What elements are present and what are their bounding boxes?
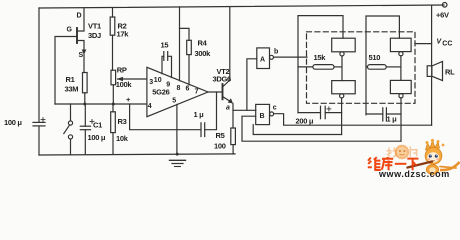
- resistor R4: [180, 28, 190, 40]
- gate stage1 bottom box: [332, 81, 356, 94]
- gate stage1 top box: [332, 38, 356, 52]
- wire gate of VT1: [55, 37, 77, 105]
- wire B lower input feedback: [242, 116, 401, 141]
- faint stamp glyph zhao: [387, 148, 398, 158]
- node +6V terminal: [442, 3, 447, 8]
- watermark: [368, 139, 460, 179]
- resistor 15k: [298, 66, 313, 68]
- svg-text:3DG6: 3DG6: [213, 75, 232, 84]
- svg-text:R1: R1: [66, 75, 75, 84]
- wire top supply rail: [39, 5, 444, 8]
- svg-text:3DJ: 3DJ: [88, 31, 101, 40]
- wire bottom ground rail: [39, 154, 235, 155]
- svg-text:R5: R5: [216, 131, 225, 140]
- svg-text:15k: 15k: [314, 53, 327, 62]
- svg-text:100k: 100k: [116, 80, 133, 89]
- transistor VT2 3DG6: [222, 84, 224, 99]
- svg-text:6: 6: [186, 85, 190, 92]
- svg-text:R4: R4: [198, 39, 208, 48]
- svg-text:17k: 17k: [117, 30, 130, 39]
- svg-text:D: D: [77, 13, 82, 20]
- svg-text:7: 7: [195, 88, 199, 95]
- wire op-amp output: [208, 91, 223, 93]
- svg-text:a: a: [226, 105, 230, 112]
- wire pin 8 to rail: [179, 7, 181, 81]
- mascot crown: [426, 141, 440, 151]
- IC dashed box: [307, 32, 416, 104]
- op-amp U 5G26: [147, 67, 208, 116]
- svg-text:RP: RP: [117, 66, 127, 75]
- faint stamp badge: [395, 145, 409, 159]
- svg-text:R3: R3: [118, 117, 127, 126]
- gate stage2 top box: [390, 38, 411, 51]
- svg-text:www.dzsc.com: www.dzsc.com: [378, 169, 450, 178]
- capacitor 1u feedback: [130, 104, 201, 130]
- svg-text:3: 3: [149, 79, 153, 86]
- svg-text:10: 10: [154, 77, 162, 84]
- wire left border: [38, 8, 40, 122]
- wire node line: [55, 103, 146, 105]
- gate A: [257, 48, 270, 69]
- faint stamp glyph pian: [410, 147, 418, 158]
- wire supply feed right: [431, 5, 433, 66]
- svg-text:5: 5: [172, 97, 176, 104]
- node junction RP/R3: [112, 103, 115, 106]
- svg-text:CC: CC: [442, 40, 452, 47]
- resistor R3: [112, 104, 114, 112]
- wire loop stage 1: [298, 16, 343, 113]
- svg-text:C1: C1: [93, 121, 102, 130]
- mascot tail: [440, 162, 460, 170]
- resistor R5: [231, 128, 236, 145]
- svg-text:b: b: [274, 49, 278, 56]
- resistor R2: [112, 8, 114, 17]
- node a wire: [233, 109, 256, 111]
- svg-text:B: B: [260, 113, 265, 120]
- mascot pen: [408, 162, 433, 168]
- capacitor 1u output: [366, 113, 383, 115]
- mascot head: [425, 147, 442, 164]
- svg-text:200 μ: 200 μ: [296, 117, 314, 126]
- svg-text:5G26: 5G26: [152, 88, 169, 97]
- svg-text:100 μ: 100 μ: [4, 118, 22, 127]
- svg-text:VT1: VT1: [88, 22, 101, 31]
- svg-text:510: 510: [369, 53, 381, 62]
- svg-text:10k: 10k: [116, 134, 129, 143]
- svg-text:1 μ: 1 μ: [194, 110, 205, 119]
- capacitor 200u: [298, 112, 321, 114]
- wire B bottom pin feedback: [253, 125, 341, 135]
- capacitor 15 between pins 10 and 9: [162, 56, 164, 73]
- wire pin 5 to ground: [176, 104, 178, 154]
- svg-text:1 μ: 1 μ: [387, 115, 398, 124]
- svg-text:A: A: [260, 57, 265, 64]
- resistor R1: [83, 73, 88, 93]
- svg-text:15: 15: [161, 41, 169, 50]
- wire c to bus: [274, 114, 432, 126]
- capacitor C1: [84, 104, 86, 126]
- gate stage2 bottom box: [390, 80, 411, 93]
- svg-text:4: 4: [148, 103, 152, 110]
- gate B: [256, 104, 270, 124]
- svg-text:100: 100: [214, 142, 226, 151]
- svg-text:c: c: [273, 105, 277, 112]
- ground: [170, 159, 186, 161]
- node junction R1/C1: [83, 103, 86, 106]
- svg-text:300k: 300k: [195, 49, 212, 58]
- node junction ground: [176, 153, 179, 156]
- wire loop stage 2: [366, 16, 399, 115]
- svg-text:S: S: [79, 52, 84, 59]
- switch: [70, 104, 72, 121]
- red title wei ku yi xia drawn as strokes: [368, 157, 419, 170]
- potentiometer RP: [111, 70, 116, 85]
- svg-text:RL: RL: [445, 68, 455, 77]
- svg-text:33M: 33M: [65, 85, 79, 94]
- wire node a to gate A: [247, 59, 257, 111]
- mascot body: [426, 165, 438, 175]
- svg-text:8: 8: [177, 85, 181, 92]
- resistor 510: [366, 66, 368, 68]
- svg-text:+6V: +6V: [436, 11, 449, 20]
- svg-text:+: +: [126, 95, 131, 104]
- capacitor 100u left: [33, 121, 45, 123]
- transistor VT1 3DJ jfet: [76, 28, 78, 43]
- svg-text:G: G: [67, 26, 73, 33]
- speaker RL: [427, 66, 432, 77]
- wire b to IC: [274, 56, 308, 58]
- wire Vcc: [415, 43, 432, 45]
- svg-text:100 μ: 100 μ: [88, 133, 106, 142]
